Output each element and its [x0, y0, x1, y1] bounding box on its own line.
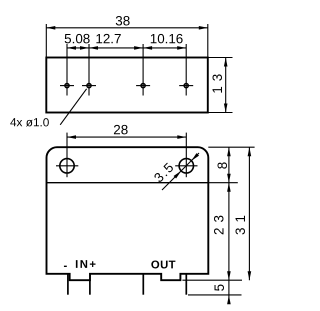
pin 2 [89, 280, 91, 295]
dimension line for 31 [248, 147, 250, 280]
mounting hole left centerline horizontal [56, 165, 78, 167]
hole center line 3 horizontal [136, 85, 150, 87]
svg-text:23: 23 [212, 210, 227, 235]
svg-text:3.5: 3.5 [151, 159, 177, 185]
pin 1 [67, 274, 69, 295]
svg-text:4x ø1.0: 4x ø1.0 [10, 115, 50, 129]
svg-text:38: 38 [115, 13, 130, 28]
mounting hole right centerline vertical [185, 133, 187, 178]
mounting hole right centerline horizontal [175, 165, 197, 167]
diameter 3.5 leader line [162, 153, 199, 190]
extension line pin tips [188, 294, 242, 296]
svg-text:OUT: OUT [151, 259, 176, 271]
front view outline [47, 147, 209, 280]
hole 1 top view [65, 84, 69, 88]
extension line right for dim 38 [207, 24, 209, 58]
pin 3 [142, 274, 144, 295]
extension line top for dim 13 [208, 57, 233, 59]
svg-text:12.7: 12.7 [95, 31, 121, 46]
svg-text:-: - [64, 260, 68, 272]
mounting hole right [179, 159, 193, 173]
svg-text:13: 13 [210, 69, 225, 94]
hole 3 top view [141, 84, 145, 88]
pin 4 [185, 274, 187, 295]
svg-text:31: 31 [233, 210, 248, 235]
extension line left for dim 38 [45, 24, 47, 58]
hole center line 1 vertical [66, 44, 68, 96]
flange step line [47, 182, 209, 184]
dimension 28 line [67, 136, 186, 138]
svg-text:IN+: IN+ [75, 259, 97, 271]
hole 4 top view [184, 84, 188, 88]
svg-text:5.08: 5.08 [64, 31, 90, 46]
dimension line row 5.08 / 12.7 / 10.16 [67, 47, 186, 49]
hole center line 3 vertical [142, 44, 144, 96]
leader line to hole 2 [60, 89, 86, 125]
hole center line 2 horizontal [82, 85, 96, 87]
hole center line 2 vertical [88, 44, 90, 96]
svg-text:10.16: 10.16 [150, 31, 184, 46]
svg-text:28: 28 [113, 122, 128, 137]
hole center line 4 horizontal [179, 85, 193, 87]
hole center line 4 vertical [185, 44, 187, 96]
extension line seating plane [182, 279, 242, 281]
dimension 38 line [46, 27, 208, 29]
hole center line 1 horizontal [60, 85, 74, 87]
dimension 13 line [225, 58, 227, 113]
mounting hole left [60, 159, 74, 173]
svg-text:5: 5 [212, 284, 227, 291]
extension line bottom for dim 13 [208, 112, 233, 114]
extension of step line for dims [208, 182, 238, 184]
hole 2 top view [87, 84, 91, 88]
extension line top right for dims 8 and 31 [208, 146, 254, 148]
top view outline [46, 58, 208, 113]
svg-text:8: 8 [215, 162, 230, 169]
mounting hole left centerline vertical [66, 133, 68, 178]
dimension line for 8 23 5 [228, 147, 230, 303]
